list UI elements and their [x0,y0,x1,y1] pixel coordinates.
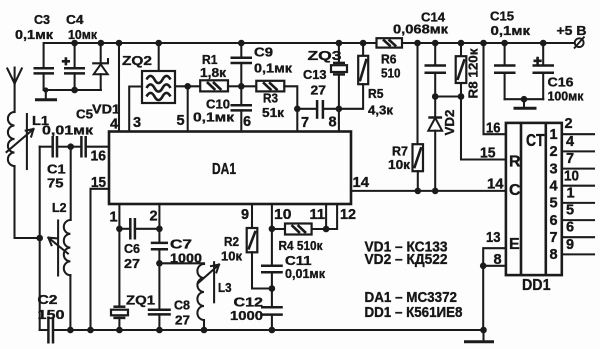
svg-text:1: 1 [110,210,118,226]
capacitor C15 [490,9,531,100]
svg-text:4: 4 [110,117,118,133]
svg-text:R6: R6 [381,52,397,67]
wire pin 14 bus DA1 to DD1 [351,175,506,194]
capacitor C7 [151,237,202,310]
capacitor C5 [40,107,94,158]
inductor L1 (variable) [7,112,50,169]
svg-text:27: 27 [175,313,190,328]
resistor R1 [200,52,228,91]
wire C15/C16 bottom [505,96,544,103]
node C5/C1 junction [67,143,74,150]
svg-text:100мк: 100мк [548,89,584,104]
capacitor C9 [231,43,293,86]
wire pin16 DD1 [484,43,506,137]
svg-text:1: 1 [549,127,557,143]
svg-text:C4: C4 [66,12,84,27]
svg-text:10к: 10к [221,249,242,264]
svg-text:E: E [509,236,520,253]
svg-text:C9: C9 [254,45,273,60]
svg-text:ZQ3: ZQ3 [308,48,342,63]
inductor L3 (variable) [159,262,231,330]
svg-text:11: 11 [310,207,326,223]
svg-text:R8 120к: R8 120к [465,48,480,98]
antenna WA1 [7,68,21,113]
svg-text:L2: L2 [52,200,67,215]
svg-text:1: 1 [567,186,575,202]
node C14/R8 junction [432,93,464,100]
svg-text:1000: 1000 [230,308,263,323]
svg-text:C15: C15 [490,9,514,24]
svg-text:8: 8 [549,247,557,263]
svg-text:15: 15 [480,146,496,162]
svg-text:+5 В: +5 В [557,23,587,38]
wire supply-ground bus [43,87,101,94]
resistor R5 [339,43,394,118]
svg-text:13: 13 [486,230,501,246]
svg-text:C6: C6 [124,241,140,256]
svg-text:0,1мк: 0,1мк [193,110,235,125]
svg-text:4: 4 [566,134,574,150]
wire pin 9 / resistor R2 [221,204,272,289]
svg-text:0,068мк: 0,068мк [393,22,449,37]
svg-text:3: 3 [549,161,557,177]
wire pin 10 [269,204,292,266]
capacitor C10 [193,86,252,131]
svg-text:4,3к: 4,3к [368,103,394,118]
svg-text:2: 2 [150,209,158,225]
svg-text:27: 27 [311,83,327,98]
svg-text:10к: 10к [388,157,411,172]
wire pins 11,12 [310,204,357,232]
resistor R6 [377,38,403,80]
wire pin 3 [129,87,142,132]
svg-text:C16: C16 [548,75,574,90]
svg-text:0,01мк: 0,01мк [42,123,94,138]
wire pin15 DD1 [461,146,506,162]
svg-text:10: 10 [564,169,579,185]
svg-text:3: 3 [133,115,141,131]
terminal +5 B [557,23,587,49]
svg-text:0,1мк: 0,1мк [254,61,293,76]
svg-text:DA1: DA1 [212,161,236,178]
svg-text:ZQ2: ZQ2 [122,53,152,68]
wire R1 to node6 [228,83,245,90]
svg-text:R2: R2 [224,234,239,249]
svg-text:510: 510 [381,66,401,81]
note IC types [365,290,463,321]
svg-text:5: 5 [566,203,574,219]
svg-text:R3: R3 [263,91,278,106]
svg-text:C8: C8 [174,298,190,313]
svg-text:4: 4 [549,179,557,195]
svg-text:5: 5 [177,113,185,129]
svg-text:R4 510к: R4 510к [279,238,323,253]
resistor R7 [388,43,423,191]
svg-text:75: 75 [47,176,64,191]
wire +5V top rail [44,42,575,44]
note diode types [365,240,448,269]
svg-text:6: 6 [243,114,251,130]
capacitor C4 [62,12,98,90]
svg-text:0,1мк: 0,1мк [15,27,54,42]
svg-text:27: 27 [124,256,140,271]
DD1 outer pin numbers [564,116,579,253]
capacitor C12 [230,295,283,331]
wire pin15 to ground rail [91,175,110,330]
wire pin 1 [110,204,123,307]
svg-text:C2: C2 [38,292,58,307]
svg-text:C: C [509,182,521,199]
svg-text:R: R [509,154,521,171]
wire pins 13,8 DD1 [480,230,506,330]
inductor L2 (variable) [48,147,70,330]
ground (near C3) [35,90,57,100]
resistor R8 [456,43,481,160]
svg-text:7: 7 [301,115,309,131]
svg-text:12: 12 [340,207,356,223]
diode VD1 (zener) [92,43,120,117]
DD1 inner pin numbers [549,127,557,263]
svg-text:14: 14 [353,175,370,191]
svg-text:15: 15 [91,175,106,191]
svg-text:VD2 – КД522: VD2 – КД522 [365,252,448,268]
svg-text:7: 7 [566,151,574,167]
svg-text:DA1 – МС3372: DA1 – МС3372 [365,290,458,306]
svg-text:150: 150 [38,307,65,322]
wire pin 7 [284,86,309,131]
svg-text:10: 10 [274,207,292,223]
diode VD2 [428,97,457,191]
svg-text:16: 16 [91,149,107,165]
svg-text:C13: C13 [303,67,327,82]
capacitor C14 [393,10,449,97]
svg-text:C1: C1 [47,162,66,177]
node rail junction dots [71,40,546,47]
wire pin 2 [150,204,163,243]
svg-text:51к: 51к [262,105,285,120]
ground (rail end) [464,330,494,342]
svg-text:C3: C3 [34,12,50,27]
svg-text:6: 6 [566,220,574,236]
svg-text:14: 14 [487,177,504,193]
svg-text:ZQ1: ZQ1 [126,293,155,308]
svg-text:5: 5 [549,196,557,212]
capacitor C13 [297,67,339,119]
svg-text:6: 6 [549,213,557,229]
svg-text:0,1мк: 0,1мк [491,23,531,38]
svg-text:C5: C5 [76,107,93,122]
capacitor C16 [533,43,584,104]
svg-text:9: 9 [241,207,249,223]
svg-text:DD1: DD1 [522,277,551,294]
resistor R4 [272,224,326,254]
svg-text:CT: CT [526,130,545,150]
filter ZQ2 [122,43,175,103]
DD1 output pins right [562,134,594,254]
svg-text:C7: C7 [170,237,192,252]
crystal ZQ3 [308,43,348,132]
crystal ZQ1 [111,293,155,331]
capacitor C2 [38,292,65,344]
wire pin 5 node [175,83,200,132]
resistor R3 [241,81,284,120]
IC DD1 [506,123,562,294]
capacitor C1 [47,136,109,191]
svg-text:VD1: VD1 [92,102,120,117]
svg-text:7: 7 [549,230,557,246]
capacitor C3 [15,12,54,90]
svg-text:DD1 – К561ИЕ8: DD1 – К561ИЕ8 [365,305,463,321]
svg-text:VD2: VD2 [442,110,457,136]
svg-text:8: 8 [329,115,337,131]
svg-text:L3: L3 [218,280,232,295]
svg-text:9: 9 [566,237,574,253]
capacitor C8 [148,298,190,331]
svg-text:16: 16 [486,121,501,137]
capacitor C6 [119,218,159,271]
svg-text:0,01мк: 0,01мк [285,266,325,281]
wire C1/C2 branch [39,147,41,330]
svg-text:10мк: 10мк [68,27,97,42]
wire antenna to tank [15,166,44,241]
ground (near C16) [514,99,537,108]
wire ground rail bottom [53,327,486,334]
wire pin 4 [110,43,119,133]
svg-text:1,8к: 1,8к [200,65,227,80]
svg-text:2: 2 [549,144,557,160]
svg-text:2: 2 [565,116,573,132]
IC DA1 [109,132,351,205]
svg-text:8: 8 [494,252,502,268]
capacitor C11 [261,253,325,307]
svg-text:R5: R5 [368,86,384,101]
